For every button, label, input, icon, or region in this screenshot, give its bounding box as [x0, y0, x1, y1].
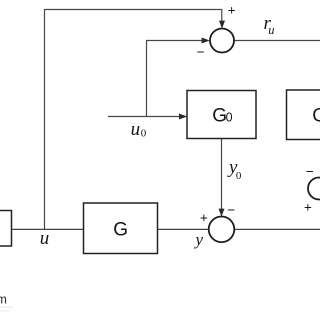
svg-text:−: −	[227, 203, 235, 218]
svg-text:+: +	[228, 4, 236, 19]
svg-text:0: 0	[226, 110, 233, 124]
svg-text:+: +	[304, 201, 312, 216]
svg-text:u: u	[131, 119, 141, 140]
svg-text:G: G	[312, 106, 320, 127]
svg-text:m: m	[0, 293, 7, 307]
svg-text:+: +	[200, 211, 208, 226]
svg-text:−: −	[306, 165, 314, 180]
svg-text:u: u	[40, 228, 50, 249]
svg-text:−: −	[197, 46, 205, 61]
svg-text:y: y	[194, 230, 204, 249]
svg-text:G: G	[113, 219, 128, 240]
svg-text:0: 0	[141, 128, 147, 140]
svg-text:u: u	[268, 23, 274, 37]
svg-text:0: 0	[236, 170, 242, 182]
